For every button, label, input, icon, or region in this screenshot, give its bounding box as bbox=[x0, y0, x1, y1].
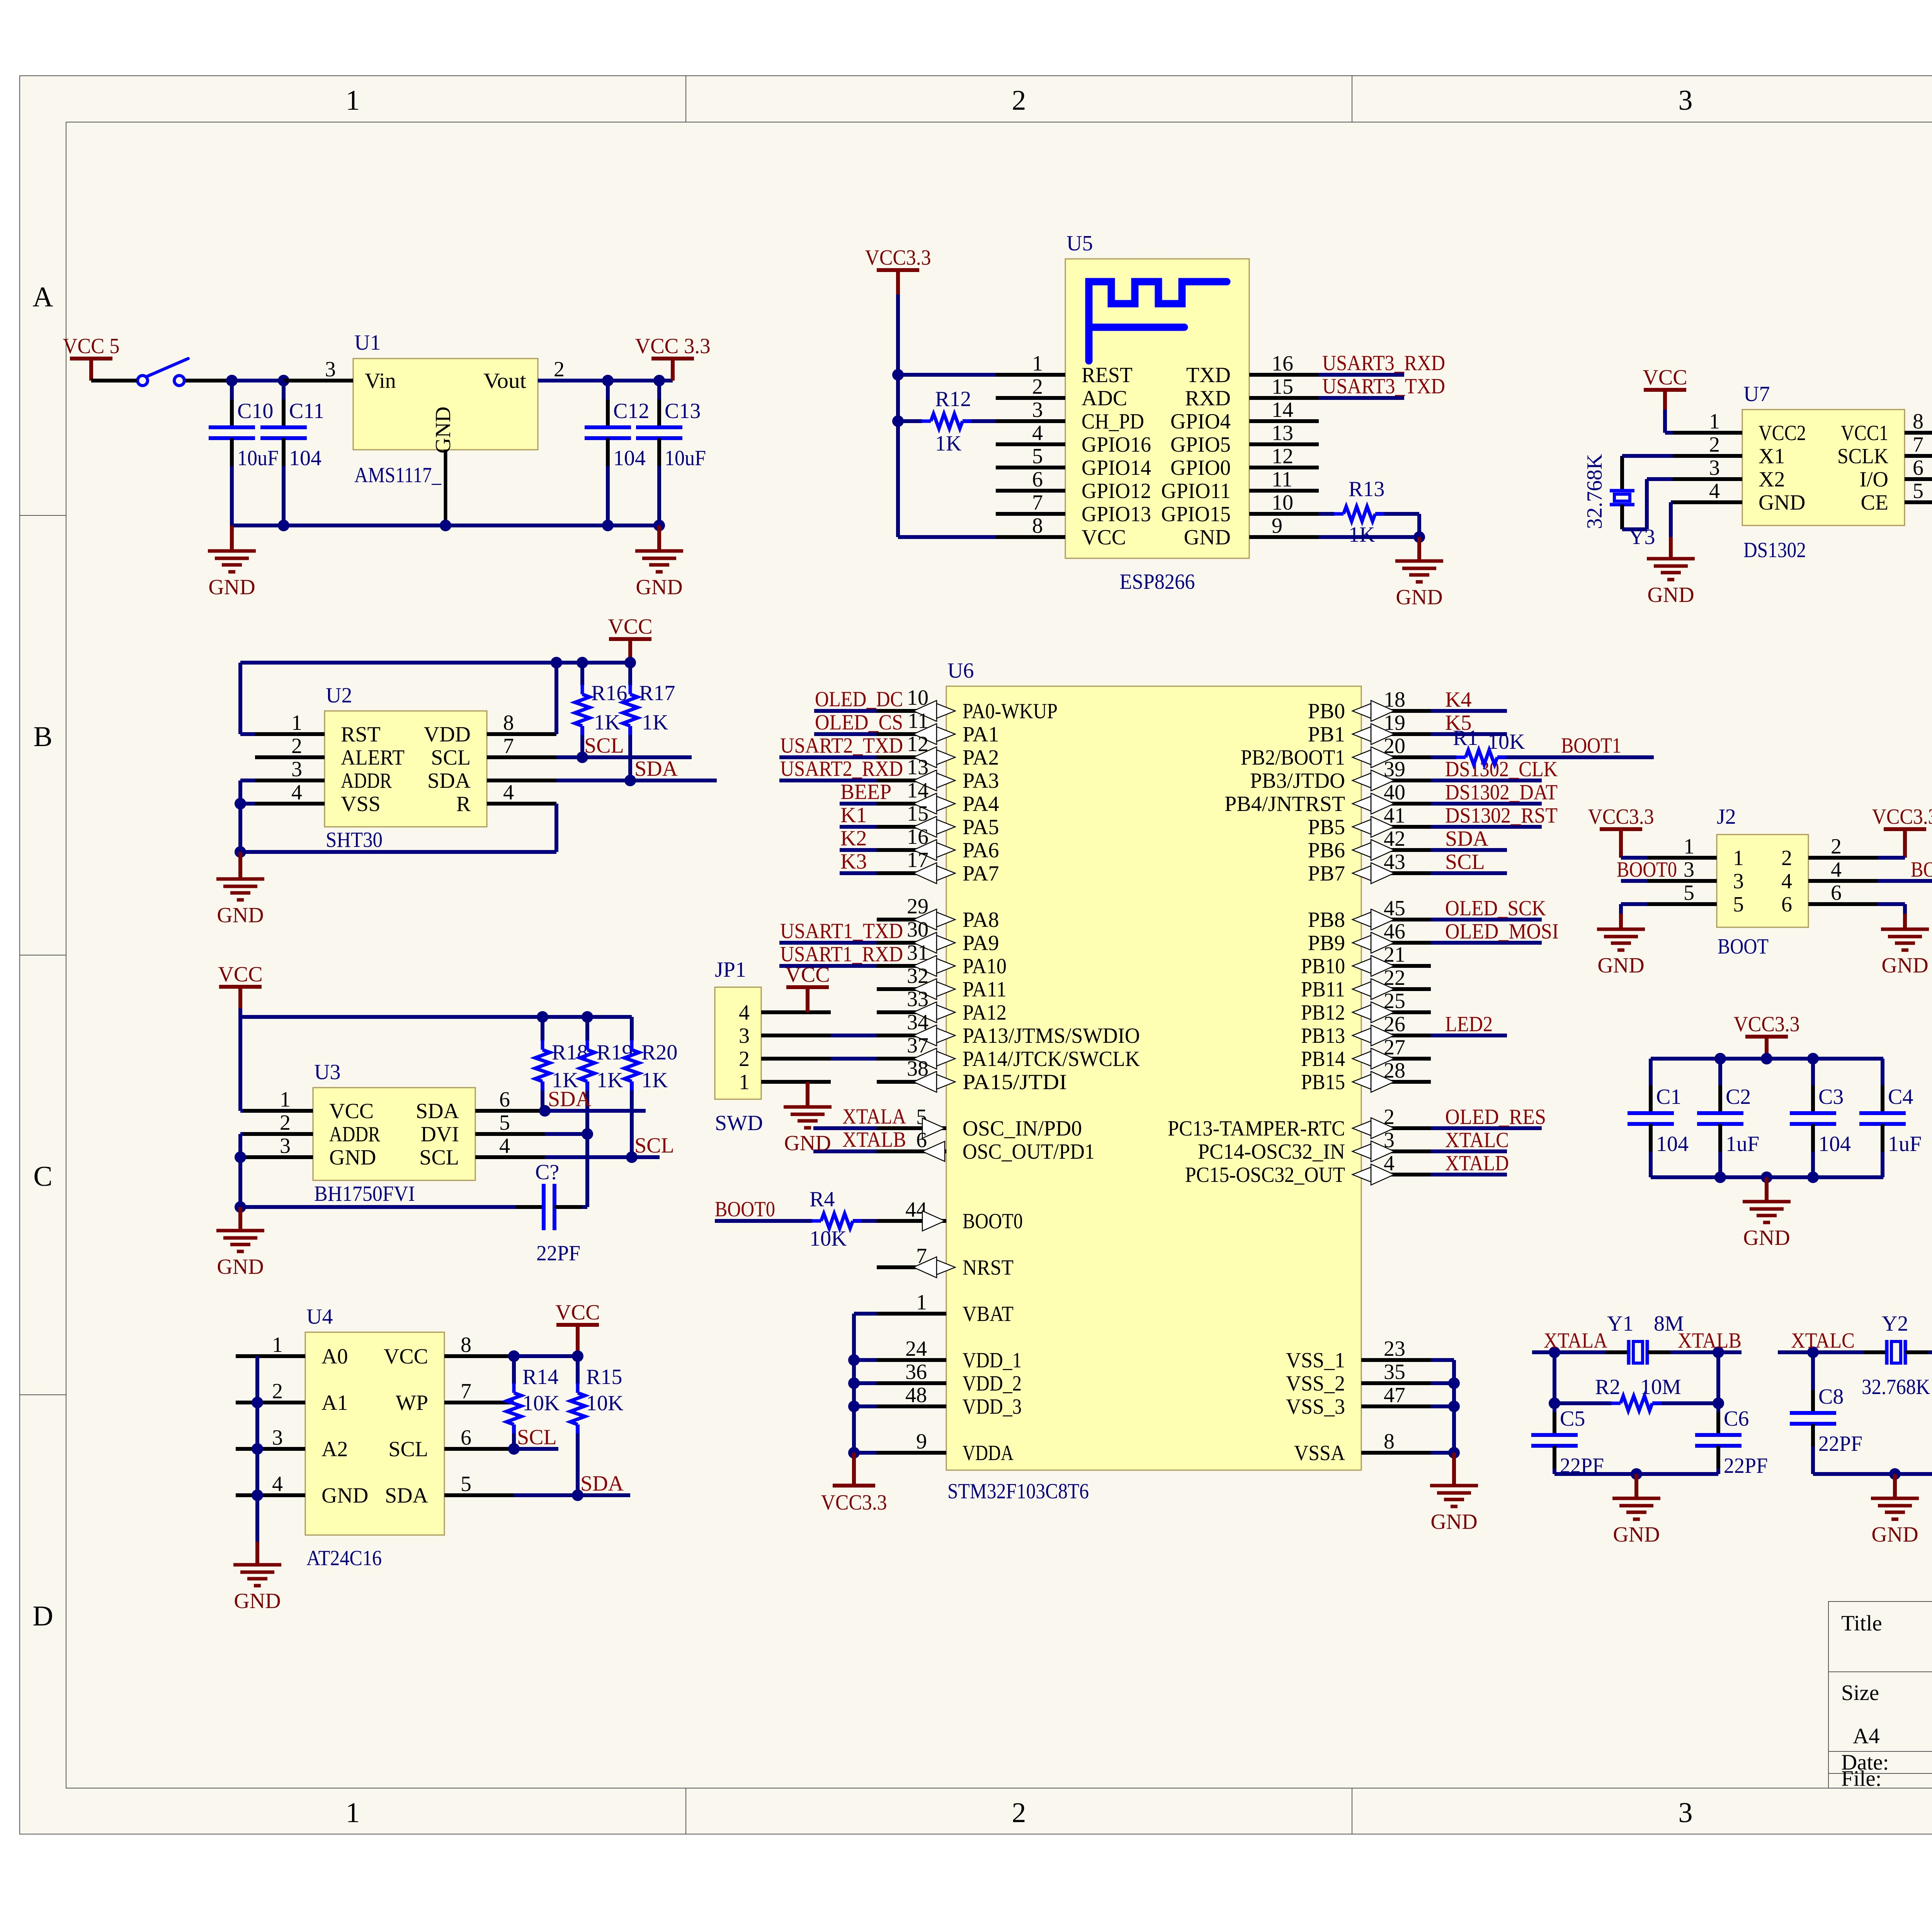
svg-text:VCC: VCC bbox=[555, 1301, 600, 1324]
svg-text:2: 2 bbox=[272, 1379, 283, 1403]
svg-text:OLED_CS: OLED_CS bbox=[815, 711, 903, 734]
wire U6 PB13 net bbox=[1431, 1034, 1507, 1037]
svg-text:U3: U3 bbox=[314, 1060, 340, 1084]
power port VCC 5 bbox=[63, 334, 120, 381]
svg-text:WP: WP bbox=[396, 1391, 428, 1415]
U3 pin 6 SDA bbox=[416, 1088, 545, 1123]
connector J2 BOOT bbox=[1717, 805, 1808, 959]
svg-text:PA12: PA12 bbox=[963, 1001, 1007, 1025]
svg-text:1K: 1K bbox=[641, 1068, 668, 1092]
svg-text:16: 16 bbox=[1272, 352, 1293, 376]
svg-text:PB8: PB8 bbox=[1308, 908, 1345, 932]
svg-text:C3: C3 bbox=[1818, 1085, 1844, 1109]
svg-text:47: 47 bbox=[1384, 1383, 1405, 1407]
svg-text:6: 6 bbox=[1781, 893, 1792, 916]
U5 pin 3 CH_PD bbox=[996, 398, 1144, 434]
svg-text:7: 7 bbox=[503, 734, 514, 758]
svg-text:ADC: ADC bbox=[1082, 386, 1127, 410]
svg-text:7: 7 bbox=[461, 1379, 471, 1403]
svg-text:R15: R15 bbox=[586, 1365, 622, 1389]
wire VDD stub bbox=[854, 1381, 877, 1385]
U6 pin 33 PA12 bbox=[877, 987, 1007, 1025]
ground bbox=[1647, 537, 1695, 607]
svg-text:VCC: VCC bbox=[1643, 366, 1687, 389]
ground bbox=[784, 1082, 832, 1155]
svg-text:XTALB: XTALB bbox=[842, 1128, 906, 1152]
capacitor C12 bbox=[585, 399, 649, 470]
svg-text:10uF: 10uF bbox=[665, 446, 706, 470]
power port VCC bbox=[1643, 366, 1687, 410]
U5 pin 1 REST bbox=[996, 352, 1133, 387]
svg-text:R14: R14 bbox=[522, 1365, 558, 1389]
svg-text:8: 8 bbox=[503, 711, 514, 735]
svg-text:10M: 10M bbox=[1640, 1375, 1681, 1399]
svg-text:8: 8 bbox=[1032, 514, 1043, 538]
ground bbox=[208, 525, 256, 599]
svg-text:A4: A4 bbox=[1853, 1724, 1880, 1748]
U1 pin 3 Vin bbox=[284, 357, 396, 393]
wire VSS rail bbox=[1448, 1360, 1460, 1459]
wire U4 SDA net bbox=[514, 1489, 630, 1501]
svg-text:104: 104 bbox=[613, 446, 646, 470]
svg-text:5: 5 bbox=[1913, 479, 1923, 503]
svg-text:4: 4 bbox=[739, 1001, 750, 1025]
svg-text:1: 1 bbox=[739, 1070, 750, 1094]
svg-text:CE: CE bbox=[1861, 491, 1888, 515]
ground bbox=[1881, 914, 1929, 978]
svg-text:4: 4 bbox=[503, 780, 514, 804]
U5 pin 6 GPIO12 bbox=[996, 468, 1151, 503]
svg-text:K2: K2 bbox=[840, 826, 867, 850]
svg-text:1K: 1K bbox=[597, 1068, 623, 1092]
svg-text:AT24C16: AT24C16 bbox=[306, 1546, 382, 1570]
svg-text:C4: C4 bbox=[1888, 1085, 1913, 1109]
U3 pin 1 VCC bbox=[243, 1088, 374, 1123]
U6 pin 25 PB12 bbox=[1301, 989, 1431, 1025]
wire VCC to U7 pin1 bbox=[1665, 410, 1673, 433]
svg-text:GPIO0: GPIO0 bbox=[1170, 456, 1231, 480]
svg-text:VCC: VCC bbox=[218, 962, 262, 986]
svg-text:PA14/JTCK/SWCLK: PA14/JTCK/SWCLK bbox=[963, 1047, 1140, 1071]
svg-text:PA6: PA6 bbox=[963, 838, 999, 862]
wire J2 pin5 left bbox=[1621, 902, 1647, 906]
wire gnd rail U1 block bbox=[232, 520, 665, 531]
wire U6 PB8 net bbox=[1431, 918, 1542, 921]
U6 pin 43 PB7 bbox=[1308, 850, 1431, 886]
svg-text:C1: C1 bbox=[1656, 1085, 1681, 1109]
wire gnd rail to U2 R pin bbox=[240, 804, 556, 852]
U5 pin 9 GND bbox=[1184, 514, 1319, 549]
svg-text:GND: GND bbox=[217, 1255, 264, 1279]
wire to U5 pin8 bbox=[898, 535, 996, 539]
svg-text:PC14-OSC32_IN: PC14-OSC32_IN bbox=[1198, 1140, 1345, 1164]
svg-text:1uF: 1uF bbox=[1888, 1132, 1922, 1156]
wire VSS stub bbox=[1431, 1381, 1454, 1385]
wire VSS stub bbox=[1431, 1404, 1454, 1408]
svg-text:Y2: Y2 bbox=[1882, 1312, 1908, 1336]
svg-text:R13: R13 bbox=[1349, 477, 1384, 501]
resistor R12 bbox=[898, 387, 996, 456]
svg-text:XTALA: XTALA bbox=[842, 1105, 906, 1129]
U6 pin 47 VSS_3 bbox=[1286, 1383, 1431, 1419]
U2 pin 3 ADDR bbox=[255, 757, 392, 793]
svg-text:VSS_3: VSS_3 bbox=[1286, 1395, 1345, 1419]
wire VDD rail bbox=[848, 1314, 860, 1459]
U4 pin 7 WP bbox=[396, 1379, 514, 1415]
svg-text:5: 5 bbox=[461, 1472, 471, 1496]
svg-text:GND: GND bbox=[1613, 1523, 1660, 1547]
svg-text:GND: GND bbox=[1396, 585, 1442, 609]
IC U5 ESP8266 bbox=[1065, 231, 1249, 594]
svg-text:U2: U2 bbox=[326, 683, 352, 707]
wire VSS down to gnd rail bbox=[235, 804, 246, 858]
U6 pin 31 PA10 bbox=[877, 941, 1007, 978]
ground bbox=[1395, 537, 1443, 609]
svg-text:3: 3 bbox=[291, 757, 302, 781]
crystal Y2 bbox=[1864, 1312, 1929, 1365]
wire C3 to gnd rail bbox=[1811, 1152, 1815, 1177]
U5 pin 5 GPIO14 bbox=[996, 444, 1151, 480]
U6 pin 32 PA11 bbox=[877, 964, 1007, 1001]
svg-text:VCC: VCC bbox=[384, 1345, 428, 1369]
U6 pin 40 PB4/JNTRST bbox=[1225, 780, 1431, 816]
svg-text:2: 2 bbox=[291, 734, 302, 758]
ground bbox=[233, 1542, 281, 1613]
wire U6 PB9 net bbox=[1431, 941, 1542, 945]
U4 pin 1 A0 bbox=[236, 1333, 348, 1369]
wire XTALA down bbox=[1549, 1352, 1560, 1412]
wire U6 PB0 net bbox=[1431, 709, 1507, 713]
ground bbox=[635, 525, 683, 599]
wire Y3 to U7 X2 bbox=[1622, 479, 1673, 529]
svg-text:SCL: SCL bbox=[1445, 850, 1485, 874]
U6 pin 29 PA8 bbox=[877, 894, 999, 932]
svg-text:12: 12 bbox=[1272, 444, 1293, 468]
wire U4 SCL net bbox=[508, 1443, 558, 1455]
U5 pin 15 RXD bbox=[1185, 375, 1319, 410]
svg-text:VSS_2: VSS_2 bbox=[1286, 1372, 1345, 1396]
U6 pin 36 VDD_2 bbox=[877, 1360, 1022, 1396]
J2 pin 6 bbox=[1808, 881, 1878, 905]
svg-text:U1: U1 bbox=[354, 331, 381, 355]
svg-text:1K: 1K bbox=[935, 432, 961, 456]
svg-text:USART2_RXD: USART2_RXD bbox=[780, 757, 903, 781]
wire VCC to rail U3 bbox=[238, 1008, 242, 1017]
svg-text:SWD: SWD bbox=[715, 1111, 763, 1135]
svg-text:GND: GND bbox=[208, 575, 255, 599]
svg-text:PA8: PA8 bbox=[963, 908, 999, 932]
wire U6 PB5 net bbox=[1431, 825, 1542, 829]
U6 pin 27 PB14 bbox=[1301, 1035, 1431, 1071]
svg-text:VSS: VSS bbox=[341, 792, 381, 816]
svg-text:PA15/JTDI: PA15/JTDI bbox=[963, 1070, 1067, 1094]
ground bbox=[216, 852, 264, 927]
svg-text:22PF: 22PF bbox=[1724, 1454, 1768, 1478]
svg-text:Vout: Vout bbox=[483, 369, 526, 393]
U6 pin 42 PB6 bbox=[1308, 827, 1431, 862]
svg-text:CH_PD: CH_PD bbox=[1082, 410, 1144, 434]
U5 pin 8 VCC bbox=[996, 514, 1126, 549]
svg-text:1K: 1K bbox=[1349, 523, 1375, 547]
U6 pin 6 OSC_OUT/PD1 bbox=[877, 1128, 1095, 1164]
svg-text:VCC3.3: VCC3.3 bbox=[1734, 1012, 1800, 1036]
svg-text:1: 1 bbox=[1032, 352, 1043, 376]
U6 pin 34 PA13/JTMS/SWDIO bbox=[877, 1010, 1140, 1048]
U7 pin 3 X2 bbox=[1673, 456, 1785, 491]
svg-text:1: 1 bbox=[280, 1088, 291, 1112]
svg-text:D: D bbox=[32, 1600, 53, 1632]
svg-text:OLED_MOSI: OLED_MOSI bbox=[1445, 920, 1559, 944]
U5 pin 4 GPIO16 bbox=[996, 421, 1151, 457]
svg-text:XTALA: XTALA bbox=[1544, 1329, 1607, 1353]
svg-text:3: 3 bbox=[1684, 858, 1694, 882]
wire U6 PA7 net bbox=[840, 871, 877, 875]
resistor R19 bbox=[580, 1017, 633, 1134]
svg-text:VCC3.3: VCC3.3 bbox=[865, 246, 931, 270]
svg-text:GND: GND bbox=[217, 903, 264, 927]
svg-text:C?: C? bbox=[535, 1160, 559, 1184]
svg-text:SDA: SDA bbox=[634, 757, 678, 781]
connector JP1 SWD bbox=[715, 958, 763, 1135]
svg-text:R20: R20 bbox=[641, 1040, 677, 1064]
svg-text:8: 8 bbox=[461, 1333, 471, 1357]
svg-text:10K: 10K bbox=[810, 1227, 847, 1251]
svg-text:5: 5 bbox=[1684, 881, 1694, 905]
svg-text:DS1302_DAT: DS1302_DAT bbox=[1445, 780, 1558, 804]
power port VCC3.3 bbox=[1734, 1012, 1800, 1059]
wire U3 DVI to R19 bbox=[545, 1128, 593, 1140]
wire C10 to C11 node bbox=[226, 375, 289, 386]
svg-text:10K: 10K bbox=[1488, 730, 1525, 754]
U5 pin 16 TXD bbox=[1186, 352, 1319, 387]
svg-text:9: 9 bbox=[916, 1430, 927, 1454]
wire R13 to gnd node bbox=[1413, 514, 1425, 543]
svg-text:10: 10 bbox=[1272, 491, 1293, 515]
svg-text:SHT30: SHT30 bbox=[326, 828, 383, 852]
svg-text:PA3: PA3 bbox=[963, 769, 999, 793]
svg-text:SDA: SDA bbox=[580, 1472, 624, 1496]
svg-text:8: 8 bbox=[1384, 1430, 1395, 1454]
svg-text:K3: K3 bbox=[840, 850, 867, 874]
U6 pin 14 PA4 bbox=[877, 779, 999, 816]
wire rail to C4 bbox=[1881, 1059, 1884, 1085]
svg-text:1: 1 bbox=[346, 85, 360, 116]
wire U2 SDA net bbox=[556, 775, 717, 786]
svg-text:R2: R2 bbox=[1595, 1375, 1620, 1399]
wire U6 PA0-WKUP net bbox=[814, 709, 877, 713]
U7 pin 4 GND bbox=[1673, 479, 1805, 515]
svg-text:2: 2 bbox=[1032, 375, 1043, 399]
capacitor C11 bbox=[260, 399, 324, 470]
svg-text:9: 9 bbox=[1272, 514, 1282, 538]
svg-text:GPIO13: GPIO13 bbox=[1082, 502, 1151, 526]
svg-text:BOOT: BOOT bbox=[1718, 935, 1769, 959]
power port VCC bbox=[555, 1301, 600, 1356]
U6 pin 22 PB11 bbox=[1301, 966, 1431, 1001]
frame column labels bbox=[346, 85, 1932, 1829]
svg-text:A2: A2 bbox=[321, 1437, 348, 1461]
wire U3 gnd rail bbox=[240, 1205, 521, 1209]
wire VSS stub bbox=[1431, 1451, 1454, 1455]
U4 pin 2 A1 bbox=[236, 1379, 348, 1415]
svg-text:STM32F103C8T6: STM32F103C8T6 bbox=[947, 1479, 1089, 1503]
svg-text:K4: K4 bbox=[1445, 688, 1471, 712]
svg-text:32.768K: 32.768K bbox=[1862, 1375, 1930, 1399]
svg-text:3: 3 bbox=[325, 357, 336, 381]
svg-text:PB14: PB14 bbox=[1301, 1047, 1345, 1071]
power switch bbox=[138, 359, 188, 386]
wire C1 to gnd rail bbox=[1649, 1152, 1653, 1177]
U4 pin 4 GND bbox=[236, 1472, 368, 1508]
wire R1 to BOOT1 bbox=[1522, 755, 1654, 759]
svg-text:OLED_DC: OLED_DC bbox=[815, 687, 903, 711]
svg-text:VCC3.3: VCC3.3 bbox=[1872, 805, 1932, 829]
svg-text:PA5: PA5 bbox=[963, 815, 999, 839]
svg-text:Y1: Y1 bbox=[1607, 1312, 1633, 1336]
svg-text:PB2/BOOT1: PB2/BOOT1 bbox=[1241, 746, 1345, 770]
svg-text:DS1302_RST: DS1302_RST bbox=[1445, 804, 1558, 828]
svg-text:4: 4 bbox=[272, 1472, 283, 1496]
wire rail to U3 VCC pin bbox=[240, 1017, 243, 1111]
svg-text:C2: C2 bbox=[1726, 1085, 1751, 1109]
U7 pin 2 X1 bbox=[1673, 433, 1785, 468]
U6 pin 7 NRST bbox=[877, 1244, 1014, 1280]
svg-text:1: 1 bbox=[1733, 846, 1744, 870]
svg-text:U5: U5 bbox=[1066, 231, 1093, 255]
U6 pin 20 PB2/BOOT1 bbox=[1241, 734, 1431, 770]
wire gnd rail caps bbox=[1651, 1171, 1883, 1183]
svg-text:C: C bbox=[33, 1161, 52, 1192]
svg-text:1: 1 bbox=[346, 1797, 360, 1829]
wire DVI down to C bbox=[577, 1134, 587, 1207]
svg-text:VCC 5: VCC 5 bbox=[63, 334, 120, 358]
U6 pin 12 PA2 bbox=[877, 732, 999, 770]
U5 pin 11 GPIO11 bbox=[1161, 468, 1319, 503]
JP1 pin 1 bbox=[761, 1080, 831, 1084]
svg-text:USART2_TXD: USART2_TXD bbox=[780, 734, 903, 758]
svg-text:C5: C5 bbox=[1560, 1407, 1585, 1431]
svg-text:GND: GND bbox=[1647, 583, 1694, 607]
J2 pin 3 bbox=[1647, 858, 1717, 882]
wire C12 to gnd rail bbox=[606, 466, 610, 525]
svg-text:6: 6 bbox=[1831, 881, 1842, 905]
svg-text:2: 2 bbox=[1012, 85, 1026, 116]
U1 pin 2 Vout bbox=[483, 357, 607, 393]
svg-text:1K: 1K bbox=[594, 711, 620, 734]
svg-text:JP1: JP1 bbox=[715, 958, 746, 982]
svg-text:4: 4 bbox=[291, 780, 302, 804]
svg-text:5: 5 bbox=[1032, 444, 1043, 468]
svg-text:VSS_1: VSS_1 bbox=[1286, 1348, 1345, 1372]
svg-text:2: 2 bbox=[1781, 846, 1792, 870]
wire VBAT bbox=[854, 1312, 877, 1316]
wire U6 PA9 net bbox=[779, 941, 877, 945]
capacitor C6 bbox=[1695, 1407, 1768, 1478]
IC U4 AT24C16 bbox=[305, 1305, 444, 1570]
ground bbox=[1871, 1474, 1919, 1547]
svg-text:GPIO15: GPIO15 bbox=[1161, 502, 1231, 526]
svg-text:GND: GND bbox=[636, 575, 682, 599]
resistor R15 bbox=[570, 1356, 623, 1495]
svg-text:3: 3 bbox=[739, 1024, 750, 1048]
svg-text:3: 3 bbox=[1679, 1797, 1693, 1829]
svg-text:SDA: SDA bbox=[1445, 827, 1489, 851]
U6 pin 37 PA14/JTCK/SWCLK bbox=[877, 1034, 1140, 1071]
svg-text:6: 6 bbox=[1032, 468, 1043, 491]
J2 pin 1 bbox=[1647, 835, 1717, 859]
U6 pin 19 PB1 bbox=[1308, 711, 1431, 746]
resistor R1 bbox=[1431, 726, 1525, 765]
wire XTALB to OSC_OUT bbox=[813, 1149, 877, 1153]
svg-text:SDA: SDA bbox=[427, 769, 471, 793]
svg-text:USART1_TXD: USART1_TXD bbox=[780, 919, 903, 943]
svg-text:R12: R12 bbox=[935, 387, 971, 411]
wire C11 to gnd rail bbox=[282, 466, 286, 525]
ground bbox=[1430, 1453, 1478, 1534]
svg-text:U4: U4 bbox=[306, 1305, 333, 1329]
U6 pin 15 PA5 bbox=[877, 802, 999, 839]
svg-text:PA13/JTMS/SWDIO: PA13/JTMS/SWDIO bbox=[963, 1024, 1140, 1048]
J2 pin 5 bbox=[1647, 881, 1717, 905]
U2 pin VDD bbox=[424, 711, 556, 746]
svg-text:VCC: VCC bbox=[1082, 525, 1126, 549]
svg-text:A0: A0 bbox=[321, 1345, 348, 1369]
svg-text:GND: GND bbox=[1743, 1226, 1790, 1250]
wire U6 PB1 net bbox=[1431, 732, 1507, 736]
U6 pin 18 PB0 bbox=[1308, 688, 1431, 723]
svg-text:13: 13 bbox=[1272, 421, 1293, 445]
svg-text:PB13: PB13 bbox=[1301, 1024, 1345, 1048]
svg-text:J2: J2 bbox=[1717, 805, 1736, 829]
svg-text:RST: RST bbox=[341, 723, 381, 746]
wire U6 PA2 net bbox=[779, 755, 877, 759]
wire C13 to gnd rail bbox=[657, 466, 661, 525]
U6 pin 13 PA3 bbox=[877, 755, 999, 793]
resistor R14 bbox=[507, 1356, 560, 1449]
wire node to C10 bbox=[230, 381, 234, 400]
svg-text:DS1302: DS1302 bbox=[1743, 538, 1806, 562]
capacitor C13 bbox=[636, 399, 706, 470]
U2 pin 1 RST bbox=[255, 711, 381, 746]
svg-text:1: 1 bbox=[1684, 835, 1694, 859]
svg-text:5: 5 bbox=[499, 1111, 510, 1135]
svg-text:OLED_RES: OLED_RES bbox=[1445, 1105, 1546, 1129]
svg-text:PA9: PA9 bbox=[963, 931, 999, 955]
wire U6 PA4 net bbox=[840, 802, 877, 806]
wire U5 GND pin to node bbox=[1319, 535, 1419, 539]
svg-text:2: 2 bbox=[1709, 433, 1720, 457]
wire VCC rail U2 bbox=[240, 657, 636, 668]
svg-text:SCL: SCL bbox=[419, 1146, 459, 1170]
wire U6 PC14-OSC32_IN net bbox=[1431, 1149, 1507, 1153]
svg-text:SDA: SDA bbox=[385, 1484, 429, 1508]
U6 pin 9 VDDA bbox=[877, 1430, 1014, 1465]
U3 pin 5 DVI bbox=[420, 1111, 545, 1146]
svg-text:VCC: VCC bbox=[608, 615, 652, 639]
U5 pin 2 ADC bbox=[996, 375, 1127, 410]
svg-text:6: 6 bbox=[916, 1128, 927, 1152]
wire U6 PB3/JTDO net bbox=[1431, 779, 1542, 782]
svg-text:PB15: PB15 bbox=[1301, 1070, 1345, 1094]
U5 pin 14 GPIO4 bbox=[1170, 398, 1319, 434]
wire U3 SCL net bbox=[545, 1151, 660, 1163]
ground bbox=[1743, 1177, 1791, 1250]
svg-text:GND: GND bbox=[1759, 491, 1805, 515]
svg-text:RXD: RXD bbox=[1185, 386, 1231, 410]
svg-text:VDD_2: VDD_2 bbox=[963, 1372, 1022, 1396]
svg-text:2: 2 bbox=[554, 357, 565, 381]
power port VCC 3.3 bbox=[635, 334, 711, 381]
